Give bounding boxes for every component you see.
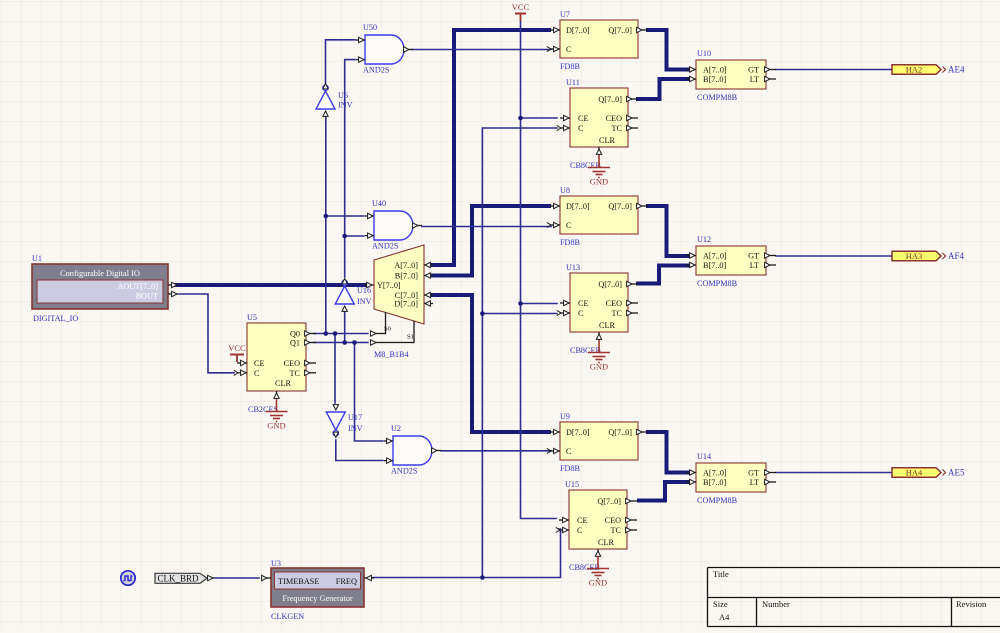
svg-text:C: C [566,221,572,230]
svg-text:Q1: Q1 [290,339,300,348]
inverter U17 INV [326,405,345,438]
sheet symbol U1 Configurable Digital IO [32,254,178,323]
svg-text:GT: GT [748,252,759,261]
svg-text:AND2S: AND2S [372,242,399,251]
svg-text:CLKGEN: CLKGEN [271,612,304,621]
multiplexer M8_B1B4 trapezoid [365,245,433,359]
port HA3 [892,251,946,261]
clock source icon [121,571,135,585]
svg-text:GND: GND [590,362,608,372]
svg-text:TIMEBASE: TIMEBASE [278,577,320,586]
wire U40 output to U8 C [422,226,551,228]
svg-text:BOUT: BOUT [136,292,158,301]
svg-text:FD8B: FD8B [560,464,581,473]
svg-text:GT: GT [748,66,759,75]
ground GND under U13 [588,340,610,372]
ground GND under U11 [588,155,610,187]
title block [708,568,1000,627]
svg-text:Configurable Digital IO: Configurable Digital IO [60,269,140,278]
svg-text:S0: S0 [384,326,391,333]
svg-text:U9: U9 [560,412,570,421]
bus mux B[7..0] to U8 D[7..0] [433,206,549,276]
bus U11 Q[7..0] to U10 B[7..0] [638,79,688,99]
wire U50 output to U7 C [412,49,551,51]
svg-text:Q[7..0]: Q[7..0] [598,280,622,289]
wire VCC vertical net [521,21,557,519]
svg-text:AND2S: AND2S [363,66,390,75]
svg-text:B[7..0]: B[7..0] [395,272,418,281]
wire Q0 down to U17 input [334,334,336,404]
svg-text:U15: U15 [565,480,579,489]
svg-text:LT: LT [750,478,759,487]
bus AOUT[7..0] from U1 to mux Y [175,283,366,287]
svg-text:LT: LT [750,261,759,270]
port HA4 [892,468,946,478]
svg-text:Title: Title [713,569,729,579]
svg-text:CB8CEB: CB8CEB [570,161,601,170]
sheet symbol U3 Frequency Generator CLKGEN [261,559,374,621]
bus U9 Q[7..0] to U14 A[7..0] [648,432,688,473]
wire clock net U3 FREQ to U15 C [373,529,561,578]
svg-text:INV: INV [348,424,363,433]
junction U6net/U40A [324,214,329,219]
svg-text:DIGITAL_IO: DIGITAL_IO [33,314,78,323]
comparator U14 COMPM8B [686,452,776,505]
svg-text:U14: U14 [697,452,711,461]
AND gate U40 AND2S [365,199,422,251]
svg-text:C: C [254,369,260,378]
svg-text:A[7..0]: A[7..0] [703,66,727,75]
svg-text:INV: INV [338,101,353,110]
svg-text:A[7..0]: A[7..0] [394,261,418,270]
junction clk/FREQ [480,575,485,580]
svg-text:Q0: Q0 [290,330,300,339]
svg-text:M8_B1B4: M8_B1B4 [374,350,409,359]
svg-text:CLR: CLR [599,136,615,145]
wire U5 Q0 to mux S0 [314,333,368,335]
comparator U10 COMPM8B [686,49,776,102]
junction clk/U13C [480,311,485,316]
svg-text:HA4: HA4 [906,468,923,478]
bus U7 Q[7..0] to U10 A[7..0] [648,30,688,70]
wire U2 output to U9 C [441,450,551,452]
svg-text:HA3: HA3 [906,251,923,261]
svg-text:Q[7..0]: Q[7..0] [608,428,632,437]
svg-text:CLR: CLR [599,321,615,330]
svg-text:D[7..0]: D[7..0] [394,300,418,309]
svg-text:U7: U7 [560,10,570,19]
bus U8 Q[7..0] to U12 A[7..0] [648,206,688,256]
svg-text:A[7..0]: A[7..0] [703,469,727,478]
svg-text:Size: Size [713,599,728,609]
svg-text:A4: A4 [719,612,730,622]
counter U15 CB8CEB [556,480,637,557]
svg-text:VCC: VCC [512,2,530,12]
svg-text:Frequency Generator: Frequency Generator [282,594,352,603]
port HA2 [892,65,946,75]
svg-text:D[7..0]: D[7..0] [566,202,590,211]
wire VCC branch to U13 CE [521,303,558,305]
svg-text:CE: CE [578,114,588,123]
junction Q1/U2A [352,340,357,345]
counter U5 CB2CES [234,313,316,399]
svg-text:U12: U12 [697,235,711,244]
flip-flop U7 FD8B [547,10,648,71]
wire U14 GT to port HA4 [776,472,892,474]
svg-text:GND: GND [267,421,285,431]
svg-text:CB2CES: CB2CES [248,405,278,414]
svg-text:U10: U10 [697,49,711,58]
svg-text:FD8B: FD8B [560,238,581,247]
wire U17 output to U2 input B [336,440,383,461]
junction Q1/U16 [342,340,347,345]
svg-text:FREQ: FREQ [336,577,357,586]
counter U11 CB8CEB [557,78,638,155]
ground GND under U15 [587,556,609,588]
svg-text:U1: U1 [32,254,42,263]
svg-text:U2: U2 [391,424,401,433]
svg-text:Q[7..0]: Q[7..0] [598,95,622,104]
wire clock net vertical to U11 C [482,128,557,578]
ground GND under U5 [266,399,288,431]
svg-text:C: C [566,45,572,54]
svg-text:S1: S1 [407,334,414,341]
svg-text:B[7..0]: B[7..0] [703,478,726,487]
svg-text:D[7..0]: D[7..0] [566,26,590,35]
svg-text:TC: TC [290,369,301,378]
svg-text:TC: TC [612,309,623,318]
svg-text:CE: CE [578,299,588,308]
svg-text:GT: GT [748,469,759,478]
inverter U16 INV [335,279,354,312]
wire Q1 up to U16 input [344,307,346,343]
svg-text:U6: U6 [338,91,348,100]
svg-text:COMPM8B: COMPM8B [697,93,738,102]
svg-text:CEO: CEO [284,359,300,368]
svg-text:CEO: CEO [606,299,622,308]
svg-text:CB8CEB: CB8CEB [570,346,601,355]
wire CLK_BRD port to U3 TIMEBASE [208,577,259,579]
svg-text:U3: U3 [271,559,281,568]
svg-text:TC: TC [612,124,623,133]
svg-text:CE: CE [577,516,587,525]
wire clock branch to U13 C [482,313,557,315]
svg-text:AE5: AE5 [948,468,965,478]
power VCC top [512,2,530,21]
AND gate U50 AND2S [356,23,413,75]
flip-flop U9 FD8B [547,412,648,473]
svg-text:CLK_BRD: CLK_BRD [157,573,199,583]
AND gate U2 AND2S [384,424,441,476]
svg-text:U40: U40 [372,199,386,208]
svg-text:C: C [577,526,583,535]
wire tap to U40 input A [326,215,364,217]
svg-text:AE4: AE4 [948,65,965,75]
svg-text:CEO: CEO [606,114,622,123]
flip-flop U8 FD8B [547,186,648,247]
svg-text:Q[7..0]: Q[7..0] [608,202,632,211]
svg-text:C: C [566,447,572,456]
port CLK_BRD [155,573,213,583]
wire U1 BOUT to U5 C [179,294,234,373]
svg-text:AND2S: AND2S [391,467,418,476]
svg-text:B[7..0]: B[7..0] [703,261,726,270]
junction U16net/U40B [342,234,347,239]
bus U13 Q[7..0] to U12 B[7..0] [638,266,688,284]
svg-text:A[7..0]: A[7..0] [703,252,727,261]
wire tap U16 output to U40 input B [345,235,364,237]
svg-text:AOUT[7..0]: AOUT[7..0] [118,282,159,291]
junction Q0/U17 [333,331,338,336]
svg-text:C: C [578,309,584,318]
inverter U6 INV [316,84,335,117]
counter U13 CB8CEB [557,263,638,340]
svg-text:AF4: AF4 [948,251,965,261]
wire U6 output to U50 input A [326,40,356,83]
svg-text:VCC: VCC [228,343,246,353]
svg-text:Number: Number [762,599,790,609]
svg-text:CEO: CEO [605,516,621,525]
wire Q1 down to U2 input A [355,343,384,442]
bus mux A[7..0] to U7 D[7..0] [433,30,549,265]
svg-text:U17: U17 [348,413,362,422]
svg-text:Revision: Revision [956,599,987,609]
svg-text:Q[7..0]: Q[7..0] [608,26,632,35]
comparator U12 COMPM8B [686,235,776,288]
svg-text:Y[7..0]: Y[7..0] [377,281,401,290]
svg-text:U50: U50 [363,23,377,32]
wire U10 GT to port HA2 [776,69,892,71]
svg-text:GND: GND [590,177,608,187]
svg-text:CB8CEB: CB8CEB [569,563,600,572]
svg-text:U5: U5 [247,313,257,322]
wire VCC branch to U11 CE [521,117,558,119]
svg-text:TC: TC [611,526,622,535]
wire Q0 up to U6 input [325,112,327,334]
bus mux C[7..0] to U9 D[7..0] [433,295,549,432]
bus U15 Q[7..0] to U14 B[7..0] [639,482,688,501]
svg-text:Q[7..0]: Q[7..0] [597,497,621,506]
svg-text:CLR: CLR [598,538,614,547]
svg-text:INV: INV [357,297,372,306]
wire U16 output to U50 input B [345,60,355,277]
junction VCC/U11CE [518,116,523,121]
svg-text:U11: U11 [566,78,580,87]
svg-text:B[7..0]: B[7..0] [703,75,726,84]
svg-text:COMPM8B: COMPM8B [697,496,738,505]
wire U12 GT to port HA3 [776,255,892,257]
svg-text:COMPM8B: COMPM8B [697,279,738,288]
power VCC at U5 CE [228,343,246,362]
junction VCC/U13CE [518,301,523,306]
svg-text:C: C [578,124,584,133]
wire U5 Q1 to mux S1 [314,342,368,344]
svg-text:CLR: CLR [275,379,291,388]
svg-text:GND: GND [589,578,607,588]
svg-text:U16: U16 [357,286,371,295]
svg-text:FD8B: FD8B [560,62,581,71]
svg-text:U8: U8 [560,186,570,195]
svg-text:D[7..0]: D[7..0] [566,428,590,437]
svg-text:HA2: HA2 [906,65,923,75]
svg-text:U13: U13 [566,263,580,272]
svg-text:CE: CE [254,359,264,368]
svg-text:LT: LT [750,75,759,84]
junction Q0/U6 [324,331,329,336]
